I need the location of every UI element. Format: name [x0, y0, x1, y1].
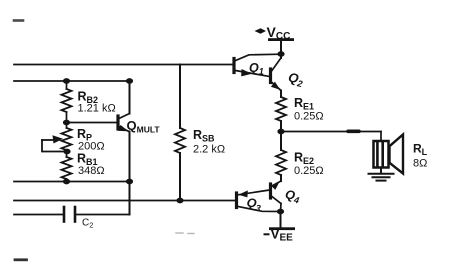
resistor RB1	[62, 157, 72, 179]
resistor RSB	[175, 128, 185, 153]
label RB2 / 1.21 kΩ	[78, 90, 116, 115]
node: Q3/Q4 collectors	[277, 209, 284, 215]
wire: RSB bottom lead	[179, 153, 181, 201]
wire: second input rail	[14, 80, 130, 82]
label Q1	[249, 61, 264, 77]
power +VCC symbol	[255, 28, 295, 41]
label RB1 / 348Ω	[77, 152, 105, 178]
node: RP/RB1/wiper	[63, 149, 70, 155]
potentiometer wiper arrow	[42, 135, 67, 151]
wire: third rail (bias bottom)	[14, 181, 130, 183]
wire: speaker drop	[380, 132, 382, 141]
label Q2	[286, 69, 305, 89]
resistor RE1	[276, 97, 286, 121]
wire: RB2 bottom lead	[66, 112, 68, 128]
resistor RP (potentiometer)	[62, 128, 72, 150]
transistor QMULT	[118, 114, 130, 132]
transistor Q2	[271, 58, 282, 91]
wire: VCC drop	[280, 41, 282, 58]
svg-text:8Ω: 8Ω	[413, 158, 427, 170]
wire: C2 riser	[129, 182, 131, 215]
wire: QMULT base wire	[67, 122, 118, 124]
wire: capacitor right lead	[76, 214, 130, 216]
wire: RE2 bottom lead	[280, 175, 282, 181]
wire: RB1 bottom lead	[66, 179, 68, 182]
wire: QMULT collector riser	[129, 81, 131, 114]
label -VEE	[264, 226, 294, 243]
label Q4	[284, 187, 302, 205]
node: VCC/Q1/Q2 collectors	[277, 51, 284, 57]
ground below speaker	[369, 168, 394, 181]
wire: RE1 to RE2 through output node	[280, 121, 282, 150]
label RSB / 2.2 kΩ	[193, 128, 225, 156]
svg-text:1.21 kΩ: 1.21 kΩ	[78, 103, 116, 115]
label RP / 200Ω	[77, 127, 105, 153]
node: output	[277, 129, 284, 135]
label RE2 / 0.25Ω	[294, 151, 324, 178]
node: w2/RB2	[63, 78, 70, 84]
node: RSB/w4	[176, 198, 183, 204]
power -VEE symbol	[269, 227, 295, 230]
stray dash top-left	[14, 19, 23, 22]
wire: RB2 top lead	[66, 81, 68, 89]
wire: capacitor left lead	[14, 214, 63, 216]
wire: fourth rail to Q3 base	[14, 200, 235, 202]
transistor Q4	[271, 181, 282, 212]
label Q3	[245, 195, 263, 213]
node: w2 end / QMULT collector	[126, 78, 133, 84]
label RL / 8Ω	[413, 142, 428, 170]
resistor RE2	[276, 150, 286, 175]
wire: output node to speaker	[281, 131, 381, 133]
capacitor C2 plates	[64, 207, 75, 222]
wire: RB1 top lead	[66, 150, 68, 157]
speaker RL body	[374, 141, 389, 168]
node: w3 end / QMULT emitter	[126, 179, 133, 185]
label RE1 / 0.25Ω	[294, 96, 324, 123]
wire: top input to Q1 base	[14, 64, 233, 66]
wire: RSB top lead	[179, 65, 181, 129]
svg-text:0.25Ω: 0.25Ω	[294, 111, 324, 123]
wire: QMULT emitter drop	[129, 132, 131, 182]
resistor RB2	[62, 89, 72, 112]
label QMULT	[127, 118, 161, 135]
wire: to -VEE	[280, 212, 282, 229]
junction dash on output wire	[348, 130, 359, 134]
wire: Q2 emitter to RE1	[280, 91, 282, 98]
faint marks bottom-middle	[176, 232, 194, 235]
speaker cone	[390, 135, 404, 174]
node: RB2/RP/QMULT base	[63, 120, 70, 126]
svg-text:0.25Ω: 0.25Ω	[294, 165, 324, 177]
transistor Q1	[234, 54, 281, 76]
svg-text:348Ω: 348Ω	[78, 165, 105, 177]
node: w3/RB1	[63, 179, 70, 185]
svg-text:2.2 kΩ: 2.2 kΩ	[193, 144, 225, 156]
transistor Q3	[237, 190, 281, 212]
stray dash bottom-left	[15, 258, 27, 261]
